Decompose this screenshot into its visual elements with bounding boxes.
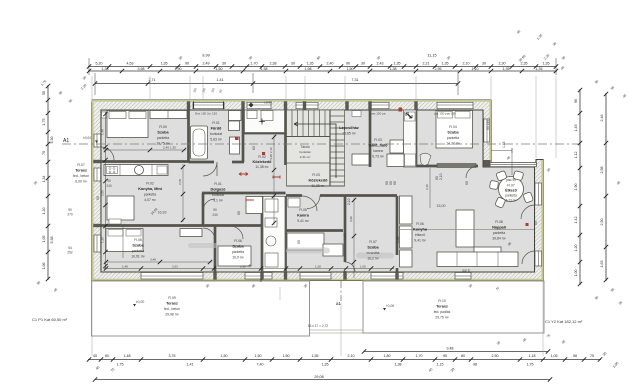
svg-text:90: 90	[574, 99, 578, 103]
wall fl07/living vertical	[396, 196, 399, 255]
svg-text:2,49 1,35: 2,49 1,35	[163, 146, 176, 150]
wall kitchen bottom long	[101, 224, 286, 227]
svg-text:Fl.09: Fl.09	[168, 296, 176, 300]
interior floor fill	[101, 110, 535, 272]
pier bottom wall at x345	[343, 272, 346, 279]
wall bed3/bed4 vertical	[214, 226, 217, 272]
short dim line upper-right corner	[491, 148, 512, 153]
svg-text:C1 P1 Kat 60,50 m²: C1 P1 Kat 60,50 m²	[32, 317, 68, 322]
svg-text:1,48: 1,48	[101, 129, 105, 135]
svg-text:Fl.05: Fl.05	[299, 208, 307, 212]
svg-text:parketta: parketta	[157, 136, 169, 140]
svg-text:Fl.01: Fl.01	[212, 121, 220, 125]
svg-text:30: 30	[291, 62, 295, 66]
svg-text:±0,00: ±0,00	[264, 101, 272, 105]
svg-text:Fl.07: Fl.07	[507, 184, 515, 188]
svg-text:burkolat: burkolat	[212, 193, 224, 197]
svg-text:Fürdő: Fürdő	[211, 127, 222, 131]
svg-text:90: 90	[213, 208, 217, 212]
svg-text:±0,00: ±0,00	[83, 136, 91, 140]
svg-text:5,30: 5,30	[50, 137, 54, 144]
wardrobe bedroom1 top	[150, 111, 187, 119]
svg-text:39,84 m²: 39,84 m²	[492, 237, 506, 241]
svg-text:2,40: 2,40	[327, 62, 334, 66]
svg-text:90 240: 90 240	[486, 120, 490, 130]
svg-text:1,48: 1,48	[122, 265, 128, 269]
svg-text:+0,00: +0,00	[386, 304, 395, 308]
svg-text:1,06: 1,06	[42, 263, 46, 270]
svg-text:burkolat: burkolat	[299, 150, 310, 154]
svg-text:1,35: 1,35	[394, 62, 401, 66]
svg-text:1,05: 1,05	[360, 265, 366, 269]
terrace right outline	[363, 281, 544, 333]
svg-text:9,41 m²: 9,41 m²	[414, 239, 426, 243]
svg-text:1,42: 1,42	[574, 217, 578, 224]
svg-text:1,35: 1,35	[536, 67, 543, 71]
window right wall living	[535, 183, 542, 205]
wall corridor bottom	[286, 194, 302, 197]
svg-text:1,35: 1,35	[322, 363, 329, 367]
island living	[456, 210, 474, 247]
pier top wall at x416	[414, 101, 417, 109]
cabinet bathroom low	[230, 137, 240, 154]
door arc corridor to living	[302, 196, 317, 211]
svg-text:1,38: 1,38	[395, 363, 402, 367]
svg-text:1,35: 1,35	[307, 62, 314, 66]
connector verticals	[94, 73, 96, 95]
svg-text:1,70: 1,70	[251, 62, 258, 66]
svg-text:9,1 m²: 9,1 m²	[213, 199, 223, 203]
svg-text:Tárolo: Tárolo	[300, 145, 310, 149]
svg-text:1,35: 1,35	[543, 62, 550, 66]
pier top wall at x243	[241, 101, 244, 109]
svg-text:3,28 2,10: 3,28 2,10	[269, 147, 273, 160]
nightstands bedroom1	[102, 112, 107, 118]
svg-text:10,9 m²: 10,9 m²	[232, 256, 244, 260]
pier bedroom2 right wall end	[484, 160, 491, 167]
svg-text:Konyha: Konyha	[413, 228, 428, 232]
svg-text:1,48: 1,48	[124, 354, 131, 358]
svg-text:45: 45	[93, 354, 97, 358]
svg-text:Kamra: Kamra	[297, 214, 310, 218]
svg-text:7,40: 7,40	[257, 363, 264, 367]
svg-text:pas 150 pa: pas 150 pa	[371, 112, 386, 116]
svg-text:burkolat: burkolat	[210, 132, 222, 136]
insulation line upper-right wing	[489, 100, 491, 163]
watermark blur 1	[286, 248, 330, 254]
svg-text:1,45: 1,45	[574, 125, 578, 132]
svg-text:13,85 m²: 13,85 m²	[342, 132, 356, 136]
svg-text:A1: A1	[63, 138, 69, 144]
svg-text:2,58: 2,58	[600, 167, 604, 174]
svg-text:fed., beton: fed., beton	[73, 174, 89, 178]
small room Fl.05 cabinet	[288, 198, 300, 207]
svg-text:54: 54	[68, 246, 72, 250]
wall bathroom/pantry vertical	[242, 110, 245, 162]
svg-text:1,63: 1,63	[600, 261, 604, 268]
svg-text:1,75: 1,75	[117, 363, 124, 367]
terrace door bottom wall left bedroom	[141, 273, 203, 280]
svg-text:29,98 m²: 29,98 m²	[165, 313, 179, 317]
svg-text:Fl.03: Fl.03	[312, 173, 320, 177]
svg-text:1,35: 1,35	[503, 67, 510, 71]
walk line arrow	[294, 122, 336, 178]
svg-text:240: 240	[106, 184, 112, 188]
svg-text:Szoba: Szoba	[447, 131, 459, 135]
svg-text:Terasz: Terasz	[75, 169, 87, 173]
svg-text:1,34: 1,34	[42, 176, 46, 183]
bed bedroom3 (bottom-left)	[106, 229, 143, 252]
door arc office	[203, 199, 215, 211]
stair inner rail	[329, 110, 331, 186]
svg-text:90: 90	[107, 179, 111, 183]
wall corridor/bath2 vertical lower	[284, 196, 287, 272]
svg-text:1,50: 1,50	[347, 67, 354, 71]
svg-text:3,98: 3,98	[138, 67, 145, 71]
door right wall living low	[535, 251, 542, 266]
svg-text:90: 90	[68, 208, 72, 212]
red mark living	[526, 223, 529, 226]
watermark blur 3	[188, 243, 218, 248]
bottom dim chain line E	[88, 359, 601, 361]
wall stairs right / gard vertical	[369, 110, 372, 167]
svg-text:2,53: 2,53	[172, 265, 178, 269]
svg-text:1,38: 1,38	[102, 67, 109, 71]
wall room small bottom	[262, 229, 343, 232]
svg-text:70: 70	[42, 151, 46, 155]
svg-text:75: 75	[590, 354, 594, 358]
inner dim line along bottom wall	[104, 268, 394, 270]
pier top wall at x188	[187, 101, 190, 109]
kitchen2 counter column (living)	[400, 196, 413, 224]
svg-text:90: 90	[393, 181, 397, 185]
svg-text:2,05: 2,05	[101, 190, 105, 196]
svg-text:1,15: 1,15	[437, 363, 444, 367]
insulation line bottom	[92, 279, 543, 281]
storage/stair divider	[287, 162, 331, 164]
svg-text:29,06: 29,06	[314, 375, 324, 379]
svg-text:2,41 m²: 2,41 m²	[300, 155, 311, 159]
svg-text:4,53: 4,53	[127, 62, 134, 66]
chairs around table	[496, 171, 507, 182]
top dim chain line C	[95, 83, 253, 85]
svg-text:1,20: 1,20	[101, 237, 105, 243]
svg-text:2,50: 2,50	[492, 354, 499, 358]
window arc living right upper	[521, 205, 535, 219]
svg-text:1,75: 1,75	[527, 363, 534, 367]
svg-text:5,63 m²: 5,63 m²	[210, 138, 222, 142]
gard closet white strip	[404, 110, 417, 167]
numbers between chains	[102, 67, 543, 71]
bottom chain segment F	[364, 351, 548, 353]
svg-text:Konyha, Mini: Konyha, Mini	[138, 187, 162, 191]
svg-text:parketta: parketta	[232, 250, 244, 254]
svg-text:60: 60	[105, 354, 109, 358]
pier left wall y225	[93, 224, 100, 227]
stray ticks right of chain	[95, 351, 620, 373]
second row numbers	[117, 363, 534, 367]
inner dim vertical fl07	[353, 198, 355, 278]
sink circle	[135, 166, 144, 175]
svg-text:2,49: 2,49	[203, 62, 210, 66]
wardrobe bedroom3	[180, 229, 202, 237]
terrace door bottom wall room2	[245, 273, 272, 280]
svg-text:240: 240	[212, 213, 218, 217]
svg-text:parketta: parketta	[505, 194, 517, 198]
svg-text:1,48: 1,48	[502, 141, 506, 148]
wall office left vertical	[202, 193, 205, 226]
svg-text:2,21: 2,21	[423, 62, 430, 66]
pier top wall at x370	[368, 101, 371, 109]
section line A1 dash-dot	[62, 144, 580, 301]
svg-text:1,41: 1,41	[217, 78, 224, 82]
beam line living	[398, 229, 534, 231]
svg-text:2,46: 2,46	[600, 115, 604, 122]
red mark corridor2	[273, 176, 280, 179]
inner face outline	[101, 110, 535, 272]
watermark blur 2	[356, 253, 394, 259]
svg-text:16 x 17 = 2,72: 16 x 17 = 2,72	[308, 324, 329, 328]
storage label	[299, 145, 310, 159]
svg-text:30: 30	[361, 62, 365, 66]
top guide verticals dropping to plan	[92, 76, 556, 356]
svg-text:4,07 m²: 4,07 m²	[144, 198, 156, 202]
svg-text:1,98: 1,98	[305, 67, 312, 71]
svg-text:2,10: 2,10	[347, 198, 351, 205]
red mark gard top	[399, 108, 403, 112]
svg-text:1,35: 1,35	[442, 62, 449, 66]
ticks chain A	[87, 64, 558, 68]
bed bedroom1	[107, 111, 148, 138]
svg-text:Szoba: Szoba	[232, 245, 244, 249]
svg-text:2,95: 2,95	[435, 67, 442, 71]
svg-text:90: 90	[465, 181, 469, 185]
gard boxes right wing	[390, 140, 404, 153]
svg-text:1,10: 1,10	[472, 67, 479, 71]
red arrows corridor	[239, 173, 248, 176]
wall fl05/fl07 vertical	[344, 196, 347, 262]
svg-text:2,43: 2,43	[377, 62, 384, 66]
svg-text:90: 90	[96, 196, 100, 200]
pier bottom wall at x285	[284, 272, 287, 279]
wall gard/bedroom2 vertical	[415, 110, 418, 167]
svg-text:sz: sz	[259, 278, 263, 282]
svg-text:16,93: 16,93	[158, 211, 167, 215]
inner dim vertical living	[429, 168, 431, 208]
svg-text:fed. padlás: fed. padlás	[434, 310, 451, 314]
svg-text:Fl.01: Fl.01	[214, 182, 222, 186]
door arc bedroom3	[203, 228, 215, 240]
svg-text:Szoba: Szoba	[157, 131, 169, 135]
svg-text:1,05: 1,05	[551, 354, 558, 358]
sofa living bottom	[437, 252, 518, 267]
svg-text:11,38 m²: 11,38 m²	[311, 184, 325, 188]
svg-text:1,90: 1,90	[175, 67, 182, 71]
window left wall kitchen	[94, 168, 101, 181]
svg-text:1,90: 1,90	[240, 265, 246, 269]
svg-text:parketta: parketta	[447, 136, 459, 140]
bed bedroom2 (top right)	[436, 111, 473, 149]
svg-text:3,48: 3,48	[150, 258, 156, 262]
svg-text:2,10: 2,10	[463, 62, 470, 66]
svg-text:9,99: 9,99	[202, 54, 209, 58]
svg-text:2,05: 2,05	[178, 179, 182, 185]
svg-text:16,2 m²: 16,2 m²	[367, 257, 379, 261]
right dim chain vertical 2	[605, 93, 607, 281]
svg-text:pad 90: pad 90	[506, 178, 516, 182]
svg-text:Étkező: Étkező	[505, 188, 517, 193]
svg-text:Dse 150 2m 150: Dse 150 2m 150	[195, 112, 217, 116]
svg-text:60: 60	[252, 146, 256, 150]
svg-text:1,28: 1,28	[315, 265, 321, 269]
svg-text:Fl.02: Fl.02	[258, 155, 266, 159]
svg-text:m.szoba: m.szoba	[367, 251, 380, 255]
washer boxes bathroom	[229, 111, 242, 121]
exterior wall band (hatched)	[92, 100, 543, 281]
inner dim vertical left rooms	[122, 226, 124, 258]
svg-text:Fl.06: Fl.06	[234, 239, 242, 243]
svg-text:3,60: 3,60	[349, 216, 353, 222]
bottom guide verticals	[91, 281, 93, 356]
window top wall bedroom2	[437, 102, 473, 108]
flight divider	[287, 136, 331, 138]
svg-text:Dolgozó: Dolgozó	[211, 188, 227, 192]
red mark hall low	[246, 199, 254, 202]
top dim chain line A	[88, 66, 557, 68]
svg-text:2,30: 2,30	[499, 62, 506, 66]
svg-text:30: 30	[222, 62, 226, 66]
svg-text:9,41 m²: 9,41 m²	[297, 219, 309, 223]
svg-text:parketta: parketta	[144, 193, 156, 197]
bath2 white floor column	[263, 197, 285, 272]
pier bottom wall at x397	[395, 272, 398, 279]
svg-text:1,12: 1,12	[574, 152, 578, 159]
svg-text:2,10: 2,10	[348, 354, 355, 358]
right dim chain vertical 1	[579, 89, 581, 285]
svg-text:Fl.03: Fl.03	[374, 138, 382, 142]
insulation line (yellow-green) top	[92, 100, 491, 102]
svg-text:6,00 m²: 6,00 m²	[75, 180, 87, 184]
svg-text:1,20: 1,20	[574, 245, 578, 252]
svg-text:1,50: 1,50	[283, 354, 290, 358]
inner dim vertical kitchen	[182, 164, 184, 222]
svg-text:1,50: 1,50	[255, 354, 262, 358]
gard arrows	[406, 113, 412, 118]
svg-text:Fl.02: Fl.02	[146, 182, 154, 186]
svg-text:2,10: 2,10	[425, 184, 429, 190]
svg-text:Gard.,háló: Gard.,háló	[369, 144, 388, 148]
svg-text:90: 90	[237, 211, 241, 215]
small cabinet right of counter	[157, 166, 167, 174]
right run treads (horizontal lines)	[330, 116, 345, 182]
insulation line left	[92, 100, 94, 281]
pier bottom wall at x215	[213, 272, 216, 279]
svg-text:Nappali: Nappali	[492, 226, 506, 230]
staircase area	[287, 110, 345, 186]
svg-text:90: 90	[185, 62, 189, 66]
bed room4 (bottom mid-left)	[218, 246, 251, 266]
svg-text:3,75: 3,75	[169, 354, 176, 358]
closet under stairs landing	[352, 154, 369, 165]
bath2 fixtures	[265, 199, 278, 212]
wall pantry/corridor vertical	[284, 110, 287, 165]
door arc room4	[230, 226, 243, 239]
svg-text:Fl.07: Fl.07	[369, 240, 377, 244]
window top wall stairs	[296, 102, 318, 108]
svg-text:parketta: parketta	[132, 249, 144, 253]
svg-text:1,18: 1,18	[529, 354, 536, 358]
svg-text:Fl.10: Fl.10	[438, 299, 446, 303]
svg-text:1,50: 1,50	[221, 354, 228, 358]
svg-text:1,10: 1,10	[343, 233, 347, 240]
svg-text:Terasz: Terasz	[436, 305, 448, 309]
svg-text:Közlekedő: Közlekedő	[309, 179, 329, 183]
svg-text:14,37 m²: 14,37 m²	[446, 142, 460, 146]
inner dim vertical table	[511, 148, 513, 175]
svg-text:98: 98	[473, 363, 477, 367]
pier left wall y161	[93, 160, 100, 163]
section line a1 vertical bottom	[340, 281, 342, 301]
svg-text:a1: a1	[336, 301, 342, 306]
glazed wall upper-right (window band between bedroom and terrace corner)	[489, 163, 537, 167]
svg-text:11,38 m²: 11,38 m²	[255, 165, 269, 169]
svg-text:Fl.00: Fl.00	[159, 125, 167, 129]
svg-text:C1 Y2 Kat 182,12 m²: C1 Y2 Kat 182,12 m²	[545, 319, 583, 324]
svg-text:7,31: 7,31	[352, 78, 359, 82]
svg-text:1,38: 1,38	[261, 67, 268, 71]
door arc fl07	[345, 262, 355, 272]
svg-text:1,55: 1,55	[312, 354, 319, 358]
svg-text:11,15: 11,15	[427, 54, 436, 58]
pantry white floor	[245, 110, 285, 133]
inner dim vertical corridor	[273, 135, 275, 225]
svg-text:kamra: kamra	[373, 149, 383, 153]
svg-text:30: 30	[482, 62, 486, 66]
door arc kitchen from hall	[203, 162, 217, 176]
terrace door bottom wall living	[455, 273, 471, 280]
svg-text:par 150 pas 150: par 150 pas 150	[434, 112, 456, 116]
svg-text:95: 95	[443, 354, 447, 358]
round dining table	[499, 177, 524, 202]
svg-text:2,10: 2,10	[439, 173, 443, 180]
svg-text:Fl.04: Fl.04	[449, 125, 457, 129]
wall bedroom2 bottom	[416, 165, 478, 168]
window top wall pantry	[247, 102, 271, 108]
svg-text:10,91 m²: 10,91 m²	[131, 255, 145, 259]
svg-text:90: 90	[534, 221, 538, 225]
wall bedroom1/bathroom vertical	[187, 110, 190, 162]
svg-text:6,73 m²: 6,73 m²	[506, 199, 517, 203]
svg-text:fed., beton: fed., beton	[164, 307, 180, 311]
bathtub	[191, 126, 208, 159]
svg-text:étkező: étkező	[415, 233, 425, 237]
svg-text:Fl.06: Fl.06	[416, 222, 424, 226]
pier top wall at x285	[284, 101, 287, 109]
svg-text:1,00: 1,00	[574, 270, 578, 277]
svg-text:270: 270	[67, 213, 73, 217]
svg-text:15,00: 15,00	[437, 204, 446, 208]
window left wall bedroom3	[94, 235, 101, 252]
svg-text:1,80: 1,80	[384, 354, 391, 358]
svg-text:gar 6: gar 6	[462, 269, 469, 273]
svg-text:±0,00: ±0,00	[136, 300, 145, 304]
svg-text:90: 90	[297, 240, 301, 244]
wall office top	[202, 192, 286, 195]
pier bottom wall at x262	[260, 272, 263, 279]
svg-text:1,35: 1,35	[161, 62, 168, 66]
fan symbol pantry	[259, 119, 265, 125]
svg-text:2,38: 2,38	[270, 62, 277, 66]
